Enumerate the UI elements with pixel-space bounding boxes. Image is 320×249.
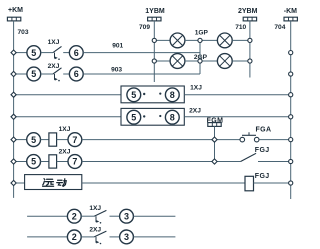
- svg-text:FGJ: FGJ: [255, 147, 270, 154]
- terminal block +KM: [7, 17, 20, 21]
- wire row5 c: [82, 139, 240, 141]
- wire lamp row2 b: [185, 60, 218, 62]
- lamp 2GP left: [170, 54, 185, 69]
- wire lamp row2 c: [232, 60, 250, 62]
- wire row6 b: [57, 161, 68, 163]
- left bus wire from +KM: [13, 21, 15, 198]
- svg-text:7: 7: [72, 157, 77, 167]
- terminal block 2YBM: [243, 17, 256, 21]
- wire row6 c: [82, 161, 241, 163]
- wire row6 right: [258, 161, 291, 163]
- node left-bus row1: [11, 50, 16, 55]
- pin 3 row8: [120, 209, 134, 223]
- wire row7 left: [14, 182, 25, 184]
- node right-bus 901: [289, 51, 293, 55]
- lamp 1GP right: [217, 33, 232, 48]
- wire row5 b: [57, 139, 68, 141]
- svg-text:2XJ: 2XJ: [189, 108, 201, 115]
- node 1YBM lamp2: [152, 59, 156, 63]
- terminal block FGM: [208, 123, 221, 127]
- wire lamp row1 a: [154, 39, 170, 41]
- svg-text:8: 8: [170, 90, 175, 100]
- wire row8 a: [81, 215, 94, 217]
- wire row9 b: [110, 236, 120, 238]
- wire row7 right: [254, 182, 291, 184]
- pin 6 row2: [69, 67, 83, 81]
- pin 5 row6: [27, 155, 41, 169]
- node 2YBM lamp2: [248, 59, 252, 63]
- coil 1XJ: [49, 133, 57, 146]
- node right-bus FGA: [289, 138, 293, 142]
- wire row8 left: [27, 215, 67, 217]
- node right-bus 903: [289, 72, 293, 76]
- pin 5 row2: [27, 67, 41, 81]
- svg-text:5: 5: [31, 157, 36, 167]
- svg-text:3: 3: [124, 211, 129, 221]
- node left-bus row4: [11, 114, 16, 119]
- wire row6 left: [14, 161, 27, 163]
- wire row2 a: [41, 73, 53, 75]
- svg-text:704: 704: [274, 24, 285, 31]
- wire row8 b: [110, 215, 120, 217]
- svg-text:1XJ: 1XJ: [59, 126, 71, 133]
- wire row5 a: [41, 139, 49, 141]
- pin 2 row8: [67, 209, 81, 223]
- contact 1XJ row1: [53, 46, 62, 60]
- pin 7 row5: [68, 133, 82, 147]
- wire row9 a: [81, 236, 94, 238]
- svg-text:703: 703: [17, 29, 28, 36]
- text yuan-dong: [43, 179, 67, 187]
- svg-text:2YBM: 2YBM: [238, 8, 258, 15]
- wire riser 901/903 to lamps: [199, 40, 201, 74]
- svg-text:1XJ: 1XJ: [89, 205, 101, 212]
- wire row1 left: [14, 52, 27, 54]
- svg-text:1YBM: 1YBM: [145, 8, 165, 15]
- svg-text:2XJ: 2XJ: [89, 227, 101, 234]
- wire row5 left: [14, 139, 27, 141]
- contact 2XJ row2: [53, 68, 62, 82]
- node left-bus row6: [11, 159, 16, 164]
- node 1YBM lamp1: [152, 38, 156, 42]
- node right-bus FGJ-coil: [289, 181, 293, 185]
- wire 903 row2: [83, 73, 200, 75]
- svg-text:709: 709: [139, 24, 150, 31]
- svg-text:1XJ: 1XJ: [190, 84, 202, 91]
- svg-text:2: 2: [72, 232, 77, 242]
- pin 7 row6: [68, 155, 82, 169]
- wire row7 mid: [82, 182, 245, 184]
- wire row3 right: [184, 94, 290, 96]
- node left-bus row7: [11, 180, 16, 185]
- pin 5 row1: [27, 46, 41, 60]
- lamp 2GP right: [217, 54, 232, 69]
- svg-text:5: 5: [31, 135, 36, 145]
- terminal block 1YBM: [148, 17, 161, 21]
- svg-text:2XJ: 2XJ: [59, 149, 71, 156]
- pin 6 row1: [69, 46, 83, 60]
- svg-text:710: 710: [235, 24, 246, 31]
- 2YBM bus wire: [249, 21, 251, 78]
- pin 3 row9: [120, 230, 134, 244]
- relay box 2XJ: [121, 108, 184, 125]
- contact FGJ: [241, 153, 257, 161]
- 1YBM bus wire: [153, 21, 155, 82]
- svg-text:6: 6: [74, 69, 79, 79]
- wire lamp row2 a: [154, 60, 170, 62]
- relay box 1XJ: [121, 86, 184, 103]
- svg-text:FGJ: FGJ: [255, 173, 270, 180]
- node riser lamp2: [198, 59, 202, 63]
- coil 2XJ: [49, 155, 57, 168]
- wire row9 right: [133, 236, 175, 238]
- pin 2 row9: [67, 230, 81, 244]
- svg-text:6: 6: [74, 48, 79, 58]
- node left-bus row3: [11, 92, 16, 97]
- node FGM row5: [212, 137, 217, 142]
- node 2YBM lamp1: [248, 38, 252, 42]
- wire row8 right: [133, 215, 175, 217]
- lamp 1GP left: [170, 33, 185, 48]
- wire lamp row1 c: [232, 39, 250, 41]
- svg-text:5: 5: [131, 112, 136, 122]
- node right-bus box2: [289, 115, 293, 119]
- remote-control box: [25, 175, 82, 190]
- svg-text:7: 7: [72, 135, 77, 145]
- terminal block -KM: [284, 17, 297, 21]
- wire row1 a: [41, 52, 53, 54]
- wire row1 b: [63, 52, 69, 54]
- svg-text:903: 903: [111, 67, 122, 74]
- wire row2 b: [63, 73, 69, 75]
- wire lamp row1 b: [185, 39, 218, 41]
- svg-text:901: 901: [112, 43, 123, 50]
- svg-text:5: 5: [131, 90, 136, 100]
- wire row4 right: [184, 116, 290, 118]
- svg-text:5: 5: [31, 48, 36, 58]
- svg-text:3: 3: [124, 232, 129, 242]
- right bus wire from -KM: [290, 21, 292, 199]
- node FGM row6: [212, 159, 217, 164]
- svg-text:2XJ: 2XJ: [48, 63, 60, 70]
- node right-bus FGJ-contact: [289, 159, 293, 163]
- svg-text:1GP: 1GP: [195, 29, 209, 36]
- wire row4 left: [14, 116, 121, 118]
- svg-text:FGA: FGA: [256, 126, 272, 133]
- node left-bus row2: [11, 71, 16, 76]
- svg-text:5: 5: [31, 69, 36, 79]
- contact 2XJ row9: [94, 231, 106, 244]
- svg-text:+KM: +KM: [8, 7, 23, 14]
- wire row9 left: [27, 236, 67, 238]
- wire row6 a: [41, 161, 49, 163]
- svg-text:8: 8: [170, 112, 175, 122]
- svg-text:2: 2: [72, 211, 77, 221]
- contact 1XJ row8: [94, 210, 106, 223]
- node right-bus box1: [289, 93, 293, 97]
- node left-bus row5: [11, 137, 16, 142]
- wire row3 left: [14, 94, 121, 96]
- pushbutton FGA: [240, 132, 259, 142]
- FGM bus wire: [214, 126, 216, 161]
- wire row2 left: [14, 73, 27, 75]
- pin 5 row5: [27, 133, 41, 147]
- svg-text:1XJ: 1XJ: [48, 39, 60, 46]
- svg-text:-KM: -KM: [284, 8, 297, 15]
- node riser lamp1: [198, 38, 202, 42]
- wire 901 row1: [83, 52, 200, 54]
- coil FGJ: [245, 176, 254, 191]
- wire row5 right: [259, 139, 291, 141]
